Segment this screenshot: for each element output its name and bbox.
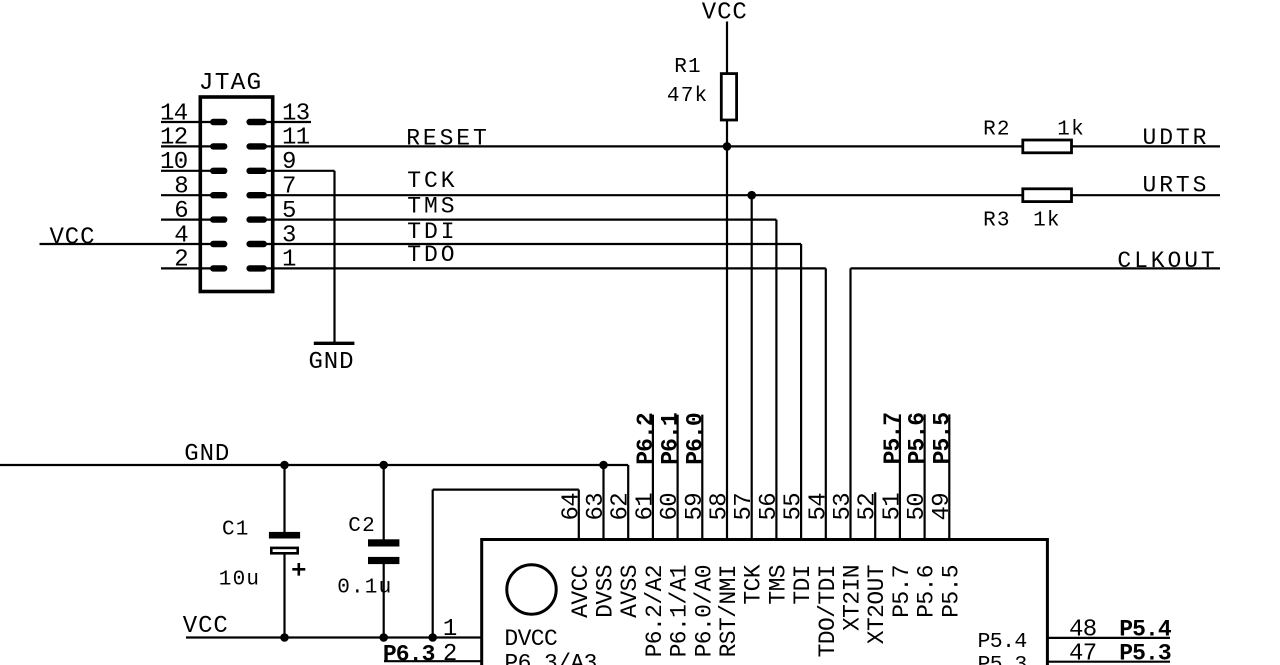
U1 pin number 49 — [929, 493, 956, 521]
wire net TCK (JTAG pin 7 to R3) — [273, 194, 1023, 196]
net label P6.2 (rotated) — [633, 413, 659, 465]
svg-text:1k: 1k — [1057, 118, 1085, 141]
svg-text:XT2IN: XT2IN — [840, 565, 866, 631]
JTAG pin row 6/5 pin bars — [202, 219, 271, 221]
U1 pin number 50 — [904, 493, 931, 521]
svg-text:14: 14 — [160, 100, 188, 127]
wire net P6.3 (U1 pin 2) — [384, 660, 482, 662]
U1 pin name P5.5 — [938, 565, 964, 618]
node VCC/C1 — [280, 633, 289, 642]
U1 pin name P5.7 — [889, 565, 915, 618]
node VCC/AVCC — [428, 633, 437, 642]
wire net TMS (JTAG pin 5 to U1 pin 56) — [273, 220, 777, 538]
svg-text:54: 54 — [805, 493, 832, 521]
svg-text:TDI: TDI — [790, 565, 816, 605]
ground symbol (below JTAG) — [314, 342, 355, 345]
svg-text:7: 7 — [282, 174, 296, 201]
svg-text:P5.5: P5.5 — [929, 413, 955, 465]
wire VCC to JTAG pin 4 — [40, 243, 201, 245]
svg-text:8: 8 — [174, 174, 188, 201]
node TCK junction — [747, 191, 756, 200]
svg-text:47: 47 — [1069, 641, 1097, 665]
svg-text:GND: GND — [184, 441, 230, 468]
wire JTAG pin 10 lead — [161, 170, 200, 172]
svg-text:UDTR: UDTR — [1143, 125, 1210, 151]
svg-text:VCC: VCC — [50, 225, 96, 252]
C1 plus sign — [292, 563, 305, 576]
svg-text:1k: 1k — [1033, 210, 1061, 233]
svg-text:13: 13 — [282, 100, 310, 127]
svg-text:P6.3/A3: P6.3/A3 — [504, 650, 596, 665]
svg-text:61: 61 — [632, 493, 659, 521]
node GND/pin63 — [599, 461, 608, 470]
wire net URTS (R3 to label) — [1072, 194, 1220, 196]
svg-text:P5.5: P5.5 — [938, 565, 964, 618]
U1 pin name TDI — [790, 565, 816, 605]
wire JTAG pin 13 stub — [273, 121, 312, 123]
svg-text:VCC: VCC — [183, 613, 229, 640]
svg-text:0.1u: 0.1u — [337, 577, 392, 600]
JTAG pin row 10/9 pin bars — [202, 170, 271, 172]
net label P6.0 (rotated) — [682, 413, 708, 465]
capacitor C1 10u (polarized) — [269, 532, 300, 553]
svg-text:P5.3: P5.3 — [978, 653, 1027, 665]
U1 pin name DVSS — [593, 565, 619, 618]
wire net P6.2 stub to U1 pin 61 — [652, 415, 654, 538]
svg-text:P5.7: P5.7 — [889, 565, 915, 618]
svg-text:11: 11 — [282, 125, 310, 152]
svg-text:C2: C2 — [348, 515, 376, 538]
svg-text:TCK: TCK — [741, 564, 767, 604]
node RESET/R1 junction — [723, 142, 732, 151]
svg-text:GND: GND — [309, 349, 355, 376]
wire net CLKOUT (U1 pin 53 to label) — [851, 268, 1221, 538]
wire JTAG pin 12 lead — [161, 145, 200, 147]
svg-text:47k: 47k — [667, 85, 708, 108]
svg-text:P5.7: P5.7 — [880, 413, 906, 465]
svg-text:60: 60 — [657, 493, 684, 521]
U1 pin number 61 — [632, 493, 659, 521]
svg-text:TDO/TDI: TDO/TDI — [815, 565, 841, 657]
wire JTAG pin 14 lead — [161, 121, 200, 123]
net label P5.7 (rotated) — [880, 413, 906, 465]
svg-text:C1: C1 — [222, 519, 250, 542]
svg-text:9: 9 — [282, 149, 296, 176]
svg-text:XT2OUT: XT2OUT — [864, 565, 890, 644]
svg-text:P6.2: P6.2 — [633, 413, 659, 465]
svg-text:TCK: TCK — [407, 168, 457, 194]
wire U1 pin 63 to GND rail — [602, 465, 604, 538]
svg-text:48: 48 — [1069, 617, 1097, 644]
wire JTAG pin 8 lead — [161, 194, 200, 196]
svg-text:DVCC: DVCC — [504, 626, 557, 652]
svg-text:6: 6 — [174, 198, 188, 225]
svg-text:62: 62 — [608, 493, 635, 521]
svg-text:1: 1 — [282, 247, 296, 274]
wire C1 bottom lead — [283, 553, 285, 638]
U1 pin name P6.1/A1 — [667, 565, 693, 657]
U1 pin number 54 — [805, 493, 832, 521]
wire net GND rail — [0, 464, 628, 466]
U1 pin name AVCC — [568, 565, 594, 618]
svg-text:59: 59 — [682, 493, 709, 521]
U1 pin name TMS — [765, 565, 791, 605]
svg-text:P6.0/A0: P6.0/A0 — [691, 565, 717, 657]
U1 pin name P5.6 — [914, 565, 940, 618]
wire net P5.3 (U1 pin 47) — [1047, 661, 1170, 663]
wire U1 pin 62 to GND rail — [627, 465, 629, 538]
U1 pin number 60 — [657, 493, 684, 521]
svg-text:53: 53 — [830, 493, 857, 521]
svg-text:P5.4: P5.4 — [1119, 617, 1172, 643]
wire C2 bottom lead — [383, 563, 385, 638]
svg-text:TDI: TDI — [407, 219, 457, 245]
node GND/C2 — [379, 461, 388, 470]
svg-text:AVSS: AVSS — [617, 565, 643, 618]
svg-text:4: 4 — [174, 222, 188, 249]
wire JTAG pin 2 lead — [161, 267, 200, 269]
resistor R2 1k — [1023, 140, 1072, 153]
wire net P5.4 (U1 pin 48) — [1047, 637, 1170, 639]
U1 pin number 59 — [682, 493, 709, 521]
svg-text:AVCC: AVCC — [568, 565, 594, 618]
U1 pin name XT2OUT — [864, 565, 890, 644]
svg-text:55: 55 — [781, 493, 808, 521]
svg-text:RESET: RESET — [406, 125, 490, 151]
U1 pin number 53 — [830, 493, 857, 521]
svg-text:5: 5 — [282, 198, 296, 225]
U1 pin name XT2IN — [840, 565, 866, 631]
wire net TDI (JTAG pin 3 to U1 pin 55) — [273, 244, 802, 538]
capacitor C2 0.1u — [368, 539, 399, 564]
wire net P6.1 stub to U1 pin 60 — [676, 415, 678, 538]
svg-text:VCC: VCC — [702, 0, 748, 26]
U1 pin number 63 — [583, 493, 610, 521]
U1 pin name AVSS — [617, 565, 643, 618]
U1 pin number 51 — [879, 493, 906, 521]
svg-text:R1: R1 — [674, 56, 702, 79]
svg-text:P6.0: P6.0 — [682, 413, 708, 465]
U1 pin name TCK — [741, 564, 767, 604]
U1 pin number 58 — [707, 493, 734, 521]
svg-text:3: 3 — [282, 222, 296, 249]
svg-text:R2: R2 — [983, 118, 1011, 141]
svg-text:52: 52 — [855, 493, 882, 521]
wire net TCK vertical to U1 pin 57 — [751, 195, 753, 538]
wire R1 to RESET node and U1 pin 58 — [726, 121, 728, 538]
U1 pin name P6.0/A0 — [691, 565, 717, 657]
JTAG pin row 12/11 pin bars — [202, 145, 271, 147]
wire net AVCC (VCC rail to U1 pin 64) — [433, 490, 579, 638]
svg-text:P5.4: P5.4 — [978, 630, 1027, 654]
svg-text:12: 12 — [160, 125, 188, 152]
svg-text:TDO: TDO — [407, 242, 457, 268]
U1 pin number 64 — [558, 493, 585, 521]
svg-text:63: 63 — [583, 493, 610, 521]
U1 pin number 52 — [855, 493, 882, 521]
IC U1 MSP430 body — [482, 540, 1048, 665]
svg-text:10u: 10u — [219, 569, 260, 592]
svg-text:2: 2 — [443, 641, 457, 665]
wire U1 pin 52 stub (XT2OUT) — [874, 492, 876, 538]
JTAG pin row 4/3 pin bars — [202, 243, 271, 245]
svg-text:P6.3: P6.3 — [383, 641, 435, 665]
wire net P5.5 stub to U1 pin 49 — [948, 414, 950, 538]
svg-text:P6.1: P6.1 — [658, 413, 684, 465]
wire net P5.6 stub to U1 pin 50 — [923, 414, 925, 538]
svg-text:RST/NMI: RST/NMI — [716, 565, 742, 657]
svg-text:CLKOUT: CLKOUT — [1117, 248, 1217, 274]
U1 pin number 56 — [756, 493, 783, 521]
JTAG pin row 14/13 pin bars — [202, 121, 271, 123]
svg-text:DVSS: DVSS — [593, 565, 619, 618]
JTAG pin row 8/7 pin bars — [202, 194, 271, 196]
svg-text:56: 56 — [756, 493, 783, 521]
U1 pin number 57 — [731, 493, 758, 521]
svg-text:TMS: TMS — [407, 194, 457, 220]
net label P6.1 (rotated) — [658, 413, 684, 465]
svg-text:64: 64 — [558, 493, 585, 521]
U1 pin number 55 — [781, 493, 808, 521]
svg-text:R3: R3 — [983, 210, 1011, 233]
svg-text:49: 49 — [929, 493, 956, 521]
svg-text:10: 10 — [160, 149, 188, 176]
U1 pin name P6.2/A2 — [642, 565, 668, 657]
svg-text:2: 2 — [174, 247, 188, 274]
svg-text:TMS: TMS — [765, 565, 791, 605]
resistor R1 47k — [721, 74, 736, 120]
svg-text:57: 57 — [731, 493, 758, 521]
U1 pin name TDO/TDI — [815, 565, 841, 657]
svg-text:51: 51 — [879, 493, 906, 521]
svg-text:P6.1/A1: P6.1/A1 — [667, 565, 693, 657]
wire C1 top lead — [283, 465, 285, 533]
svg-text:P5.3: P5.3 — [1119, 641, 1171, 665]
svg-text:URTS: URTS — [1143, 173, 1210, 199]
wire net P6.0 stub to U1 pin 59 — [701, 415, 703, 538]
svg-text:P5.6: P5.6 — [914, 565, 940, 618]
JTAG pin row 2/1 pin bars — [202, 267, 271, 269]
net label P5.5 (rotated) — [929, 413, 955, 465]
svg-text:P6.2/A2: P6.2/A2 — [642, 565, 668, 657]
U1 pin name RST/NMI — [716, 565, 742, 657]
svg-text:58: 58 — [707, 493, 734, 521]
svg-text:JTAG: JTAG — [199, 70, 263, 97]
wire net P5.7 stub to U1 pin 51 — [899, 414, 901, 538]
wire JTAG pin 9 to ground — [273, 171, 335, 343]
U1 pin number 62 — [608, 493, 635, 521]
resistor R3 1k — [1023, 189, 1072, 202]
wire C2 top lead — [383, 465, 385, 541]
node VCC/C2 — [379, 633, 388, 642]
wire net UDTR (R2 to label) — [1072, 145, 1220, 147]
svg-text:50: 50 — [904, 493, 931, 521]
wire net TDO (JTAG pin 1 to U1 pin 54) — [273, 268, 826, 538]
wire net RESET (JTAG pin 11 to R2) — [273, 145, 1023, 147]
net label P5.6 (rotated) — [905, 413, 931, 465]
node GND/C1 — [280, 461, 289, 470]
wire VCC to R1 — [726, 22, 728, 74]
svg-text:P5.6: P5.6 — [905, 413, 931, 465]
svg-text:1: 1 — [443, 616, 457, 643]
wire net VCC rail to U1 pin 1 (DVCC) — [186, 636, 482, 638]
wire JTAG pin 6 lead — [161, 219, 200, 221]
connector JTAG — [200, 97, 272, 292]
